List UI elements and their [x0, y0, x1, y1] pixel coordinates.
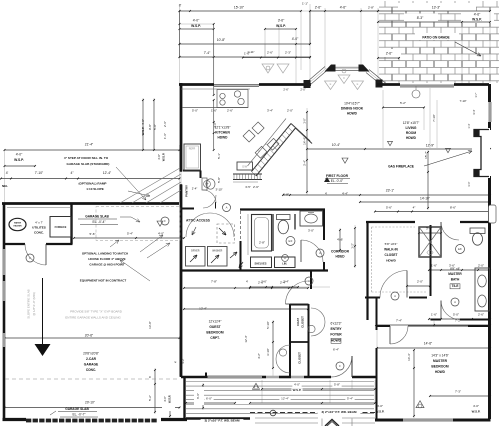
svg-text:12'-4": 12'-4" — [103, 171, 112, 175]
svg-text:5'-2": 5'-2" — [148, 395, 152, 401]
svg-text:BEDROOM: BEDROOM — [431, 365, 448, 369]
svg-text:7'-10": 7'-10" — [432, 114, 436, 122]
svg-text:21'-4": 21'-4" — [85, 143, 94, 147]
svg-text:4'-0": 4'-0" — [163, 396, 167, 402]
svg-text:4'-6": 4'-6" — [474, 13, 481, 17]
svg-text:12'-4": 12'-4" — [199, 307, 207, 311]
svg-text:DRYER: DRYER — [191, 250, 200, 253]
svg-text:6'-4": 6'-4" — [333, 348, 339, 352]
svg-text:E: E — [357, 82, 359, 86]
svg-text:1'-0": 1'-0" — [303, 118, 307, 124]
svg-text:2'-0": 2'-0" — [287, 109, 293, 113]
svg-text:W.S.P.: W.S.P. — [14, 158, 24, 162]
svg-text:14'-3": 14'-3" — [407, 353, 411, 361]
svg-text:1'-6": 1'-6" — [431, 264, 437, 268]
svg-text:PANTRY: PANTRY — [185, 185, 189, 197]
svg-text:PATIO ON GRADE: PATIO ON GRADE — [422, 36, 449, 40]
svg-text:2'-6": 2'-6" — [315, 6, 322, 10]
svg-text:3'-4": 3'-4" — [303, 160, 307, 166]
svg-text:4" STEP AT DOOR SILL IN. TO: 4" STEP AT DOOR SILL IN. TO — [64, 156, 109, 160]
svg-text:HDWD: HDWD — [347, 112, 358, 116]
svg-text:KITCHEN: KITCHEN — [215, 131, 230, 135]
svg-text:GAS FIREPLACE: GAS FIREPLACE — [388, 165, 414, 169]
svg-text:14'-4": 14'-4" — [303, 137, 307, 145]
svg-text:2'-8": 2'-8" — [259, 241, 265, 245]
svg-text:14'-10": 14'-10" — [420, 197, 430, 201]
svg-text:4'-0": 4'-0" — [158, 232, 164, 236]
svg-text:3'-10": 3'-10" — [266, 348, 270, 356]
svg-text:W.S.P.: W.S.P. — [191, 24, 201, 28]
svg-text:(OPTIONAL) RAMP: (OPTIONAL) RAMP — [78, 182, 106, 186]
svg-text:4'-2": 4'-2" — [257, 353, 261, 359]
svg-text:5'-0": 5'-0" — [453, 313, 459, 317]
svg-text:12'-9": 12'-9" — [426, 144, 435, 148]
svg-text:2'-3": 2'-3" — [285, 51, 291, 55]
svg-text:@ 1/8"/1'-0" (MIN): @ 1/8"/1'-0" (MIN) — [32, 292, 36, 315]
svg-text:1'-2": 1'-2" — [351, 243, 355, 249]
svg-text:CRPT.: CRPT. — [210, 336, 219, 340]
svg-text:3'-6": 3'-6" — [278, 19, 285, 23]
svg-text:CONC.: CONC. — [86, 368, 96, 372]
svg-text:A: A — [308, 279, 310, 283]
svg-text:2'-6": 2'-6" — [478, 313, 484, 317]
svg-text:GARAGE: GARAGE — [84, 363, 99, 367]
svg-text:CLOSET: CLOSET — [385, 253, 398, 257]
svg-text:ENTRY: ENTRY — [330, 327, 342, 331]
svg-text:SLOPE ENTIRE SLAB: SLOPE ENTIRE SLAB — [27, 289, 31, 318]
svg-text:GARAGE @ HIGH POINT: GARAGE @ HIGH POINT — [89, 263, 124, 267]
svg-text:GARAGE SLAB (STANDARD): GARAGE SLAB (STANDARD) — [67, 162, 110, 166]
svg-text:13'-0": 13'-0" — [148, 321, 152, 329]
svg-text:3'-5": 3'-5" — [245, 185, 251, 189]
svg-text:7'-4": 7'-4" — [396, 319, 402, 323]
svg-text:13'-3": 13'-3" — [432, 6, 441, 10]
svg-text:GARAGE SLAB: GARAGE SLAB — [65, 407, 89, 411]
svg-text:5'8" x8'4": 5'8" x8'4" — [385, 242, 398, 246]
svg-text:5'-6": 5'-6" — [386, 206, 392, 210]
svg-text:20'8"x20'8": 20'8"x20'8" — [83, 352, 99, 356]
svg-text:F: F — [164, 219, 166, 223]
svg-text:HOUSE FLOOR 4" ABOVE: HOUSE FLOOR 4" ABOVE — [88, 257, 125, 261]
svg-text:W.S.P.: W.S.P. — [376, 410, 385, 414]
svg-text:3'-4": 3'-4" — [267, 109, 273, 113]
svg-text:W.S.P.: W.S.P. — [293, 388, 302, 392]
svg-text:LIN.: LIN. — [282, 261, 287, 265]
svg-text:TILE: TILE — [452, 284, 459, 288]
svg-text:MASTER: MASTER — [448, 272, 462, 276]
svg-text:5'-0": 5'-0" — [192, 109, 198, 113]
svg-text:PROVIDE 5/8" TYPE "X" GYP BOAR: PROVIDE 5/8" TYPE "X" GYP BOARD — [70, 310, 123, 314]
svg-text:2'-8": 2'-8" — [368, 6, 374, 10]
svg-text:4'-2": 4'-2" — [181, 358, 185, 363]
svg-text:2'-6": 2'-6" — [163, 121, 167, 127]
svg-text:5'-4": 5'-4" — [127, 232, 133, 236]
svg-text:D: D — [343, 76, 345, 80]
svg-text:4'x6': 4'x6' — [337, 238, 343, 242]
svg-text:20'-6": 20'-6" — [85, 334, 94, 338]
svg-text:3) 2"x10" P.T. WD. BEAM: 3) 2"x10" P.T. WD. BEAM — [322, 410, 357, 414]
svg-text:W.S.P.: W.S.P. — [276, 24, 286, 28]
svg-text:4": 4" — [413, 206, 416, 210]
svg-text:7'-10": 7'-10" — [459, 99, 466, 103]
svg-text:WASHER: WASHER — [212, 250, 222, 253]
svg-text:2'-4": 2'-4" — [280, 281, 286, 285]
svg-text:4'-0": 4'-0" — [377, 404, 383, 408]
svg-text:CONC.: CONC. — [34, 231, 44, 235]
svg-text:8'-3": 8'-3" — [417, 16, 424, 20]
svg-text:COAT: COAT — [296, 318, 300, 326]
svg-text:OPTIONAL LANDING TO MATCH: OPTIONAL LANDING TO MATCH — [82, 252, 128, 256]
svg-text:7'-2": 7'-2" — [455, 319, 461, 323]
svg-text:4': 4' — [6, 171, 9, 175]
svg-text:2'-4": 2'-4" — [192, 187, 198, 191]
svg-text:ATTIC ACCESS: ATTIC ACCESS — [186, 219, 211, 223]
svg-text:2'-6": 2'-6" — [386, 52, 393, 56]
svg-text:FOYER: FOYER — [330, 333, 342, 337]
svg-text:7'-3": 7'-3" — [455, 390, 461, 394]
svg-text:GUEST: GUEST — [209, 325, 220, 329]
svg-text:MASTER: MASTER — [433, 359, 448, 363]
svg-text:12'8" x15'7": 12'8" x15'7" — [403, 121, 420, 125]
svg-text:3'-0": 3'-0" — [308, 229, 314, 233]
svg-text:W.S.P.: W.S.P. — [162, 153, 166, 162]
svg-text:LIVING: LIVING — [406, 126, 417, 130]
svg-text:2'-6": 2'-6" — [213, 122, 217, 128]
svg-text:4' x 7': 4' x 7' — [35, 221, 43, 225]
svg-text:23'-1": 23'-1" — [386, 189, 395, 193]
svg-text:7'-10": 7'-10" — [35, 171, 44, 175]
svg-text:6'-6": 6'-6" — [196, 393, 200, 399]
svg-text:A: A — [394, 294, 396, 298]
svg-text:HDWD: HDWD — [406, 136, 417, 140]
svg-text:F: F — [339, 364, 341, 368]
svg-text:3'-4": 3'-4" — [472, 109, 476, 114]
svg-text:2'-6": 2'-6" — [258, 281, 264, 285]
svg-text:W.S.P.: W.S.P. — [472, 410, 481, 414]
svg-text:E/F: E/F — [458, 247, 462, 251]
svg-text:HDWD: HDWD — [218, 136, 229, 140]
svg-text:3'-0": 3'-0" — [467, 181, 471, 186]
svg-text:8': 8' — [179, 4, 182, 8]
svg-text:5'-0": 5'-0" — [153, 124, 157, 130]
svg-text:5'-8": 5'-8" — [217, 177, 221, 183]
svg-text:3'-6": 3'-6" — [449, 264, 455, 268]
svg-text:1'-4": 1'-4" — [467, 123, 471, 128]
svg-text:2'-0": 2'-0" — [478, 264, 484, 268]
svg-text:8'-6": 8'-6" — [450, 206, 456, 210]
svg-text:EL. 0'-0": EL. 0'-0" — [331, 179, 344, 183]
svg-text:A: A — [319, 251, 321, 255]
svg-text:2'-0": 2'-0" — [300, 88, 305, 92]
svg-text:12'x12'4": 12'x12'4" — [209, 320, 222, 324]
svg-text:4'-4": 4'-4" — [342, 192, 348, 196]
svg-text:2'-6": 2'-6" — [283, 88, 288, 92]
svg-text:14'-6": 14'-6" — [424, 342, 433, 346]
svg-text:2-CAR: 2-CAR — [86, 357, 97, 361]
svg-text:E/F: E/F — [288, 239, 292, 243]
svg-text:10'4"x15'7": 10'4"x15'7" — [344, 102, 360, 106]
svg-text:ROOM: ROOM — [406, 131, 417, 135]
svg-text:HDED: HDED — [335, 255, 345, 259]
svg-text:20'-10": 20'-10" — [85, 401, 95, 405]
svg-text:HDWD: HDWD — [386, 259, 396, 263]
svg-text:EL. -0'-7": EL. -0'-7" — [72, 413, 85, 417]
svg-text:2'-6": 2'-6" — [227, 109, 233, 113]
svg-text:SHELVES: SHELVES — [255, 261, 267, 265]
svg-text:ENTIRE GARAGE WALLS AND CEILIN: ENTIRE GARAGE WALLS AND CEILING — [65, 316, 121, 320]
svg-text:1'-7": 1'-7" — [474, 92, 478, 97]
svg-text:4'-6": 4'-6" — [340, 6, 347, 10]
svg-text:4'-0": 4'-0" — [16, 153, 23, 157]
svg-text:10'-4": 10'-4" — [332, 143, 341, 147]
svg-text:3'-10": 3'-10" — [215, 188, 222, 192]
svg-text:4'-0": 4'-0" — [294, 383, 300, 387]
svg-text:CORRIDOR: CORRIDOR — [331, 250, 350, 254]
svg-text:2'-6": 2'-6" — [267, 51, 273, 55]
svg-text:DINING NOOK: DINING NOOK — [341, 107, 364, 111]
svg-text:2'-6": 2'-6" — [253, 185, 259, 189]
svg-text:6'-0": 6'-0" — [206, 397, 212, 401]
svg-text:5'-6": 5'-6" — [90, 232, 96, 236]
svg-text:1'-1": 1'-1" — [302, 2, 308, 6]
svg-text:FIRST FLOOR: FIRST FLOOR — [326, 174, 349, 178]
svg-text:F: F — [29, 256, 31, 260]
svg-text:A: A — [226, 206, 228, 210]
svg-text:12'-4": 12'-4" — [281, 397, 289, 401]
svg-text:4'-0": 4'-0" — [193, 19, 200, 23]
svg-text:1:10 SLOPE: 1:10 SLOPE — [86, 187, 104, 191]
svg-text:3'-0": 3'-0" — [426, 227, 432, 231]
svg-text:15'-7": 15'-7" — [424, 151, 428, 159]
svg-text:HEATER: HEATER — [13, 225, 22, 228]
svg-text:HDWD: HDWD — [435, 370, 446, 374]
svg-text:WATER: WATER — [14, 222, 22, 225]
svg-text:2'-0": 2'-0" — [417, 280, 423, 284]
svg-text:D: D — [284, 257, 286, 260]
svg-text:GARAGE SLAB: GARAGE SLAB — [85, 215, 109, 219]
svg-text:6'-8": 6'-8" — [283, 193, 289, 197]
svg-text:E: E — [330, 82, 332, 86]
svg-text:1'-6": 1'-6" — [431, 313, 437, 317]
svg-text:NEL: NEL — [2, 184, 8, 188]
svg-text:W.S.P.: W.S.P. — [141, 126, 145, 135]
svg-text:FURNACE: FURNACE — [55, 226, 67, 229]
svg-text:HDWD: HDWD — [331, 339, 342, 343]
svg-text:5'-2": 5'-2" — [400, 101, 406, 105]
svg-text:3) 2"x10" P.T. WD. BEAM: 3) 2"x10" P.T. WD. BEAM — [205, 419, 240, 423]
svg-text:4'-0": 4'-0" — [292, 37, 299, 41]
svg-text:1'-6": 1'-6" — [211, 109, 217, 113]
svg-text:5'-10": 5'-10" — [266, 321, 270, 329]
svg-text:EQUIPMENT NOT IN CONTRACT: EQUIPMENT NOT IN CONTRACT — [80, 279, 127, 283]
svg-text:10'-8": 10'-8" — [217, 38, 226, 42]
svg-text:EL. -0'-4": EL. -0'-4" — [92, 220, 105, 224]
svg-text:W.S.P.: W.S.P. — [168, 395, 172, 403]
svg-text:D/W: D/W — [242, 166, 247, 169]
svg-text:CLOSET: CLOSET — [298, 352, 302, 364]
svg-text:REFR: REFR — [189, 148, 196, 151]
svg-text:4'-0": 4'-0" — [157, 154, 161, 160]
svg-text:4'-0": 4'-0" — [141, 119, 145, 125]
svg-text:5'-1": 5'-1" — [217, 153, 221, 159]
svg-text:7'-8": 7'-8" — [211, 280, 217, 284]
svg-text:5'-4": 5'-4" — [347, 397, 353, 401]
svg-text:12'-4": 12'-4" — [244, 335, 248, 342]
svg-text:BEDROOM: BEDROOM — [206, 331, 223, 335]
svg-text:6'x12'3": 6'x12'3" — [330, 322, 341, 326]
svg-text:BATH: BATH — [451, 278, 460, 282]
svg-text:UTILITES: UTILITES — [32, 226, 46, 230]
svg-text:1'-11": 1'-11" — [247, 50, 254, 54]
svg-text:W.S.P.: W.S.P. — [472, 18, 482, 22]
svg-text:9'-8": 9'-8" — [148, 124, 152, 130]
svg-text:CLOSET: CLOSET — [301, 316, 305, 328]
svg-text:1'-6": 1'-6" — [163, 133, 167, 139]
svg-text:5'-8": 5'-8" — [334, 383, 340, 387]
svg-text:14'3" x 14'6": 14'3" x 14'6" — [431, 354, 448, 358]
svg-text:WALK-IN: WALK-IN — [384, 248, 398, 252]
svg-text:7'-4": 7'-4" — [204, 51, 211, 55]
svg-text:A: A — [454, 300, 456, 304]
svg-text:4'-0": 4'-0" — [473, 404, 479, 408]
svg-text:15'-10": 15'-10" — [234, 6, 245, 10]
